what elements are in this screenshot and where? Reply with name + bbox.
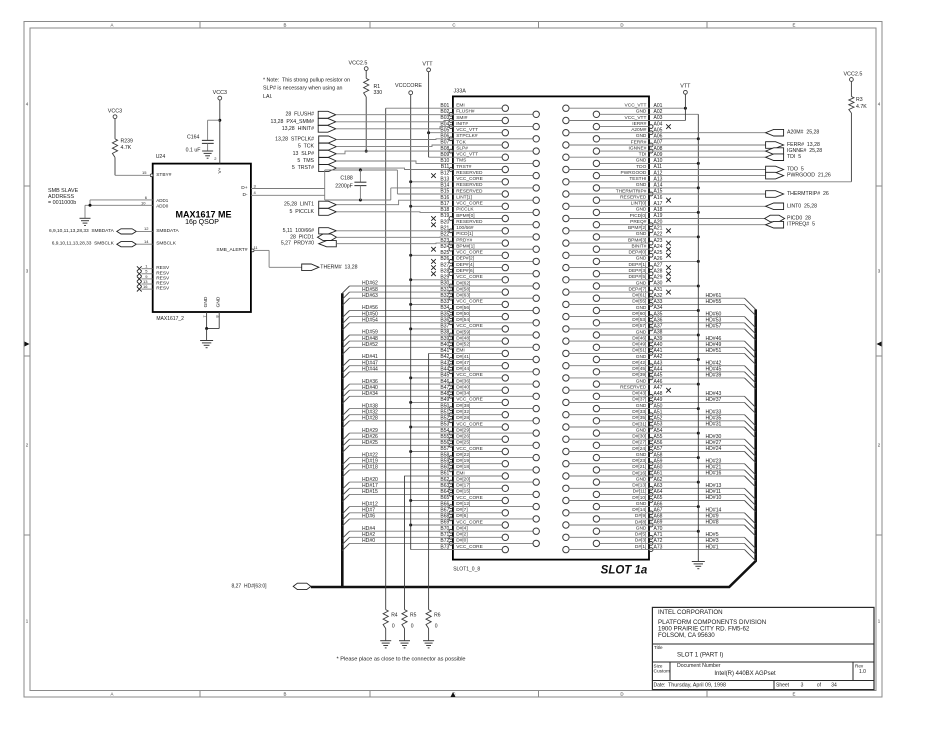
svg-text:VCC_CORE: VCC_CORE bbox=[456, 446, 483, 452]
svg-text:A21: A21 bbox=[654, 226, 663, 232]
svg-text:D#[20]: D#[20] bbox=[456, 476, 470, 482]
svg-text:D#[53]: D#[53] bbox=[632, 317, 646, 323]
svg-text:25,28 LINT1: 25,28 LINT1 bbox=[284, 202, 314, 208]
svg-text:VCC_CORE: VCC_CORE bbox=[456, 176, 483, 182]
svg-text:100/66#: 100/66# bbox=[456, 225, 474, 231]
svg-text:D#[19]: D#[19] bbox=[456, 458, 470, 464]
svg-text:LINT0 25,28: LINT0 25,28 bbox=[787, 203, 817, 209]
svg-text:6,9,10,11,13,28,33 SMBDATA: 6,9,10,11,13,28,33 SMBDATA bbox=[49, 228, 115, 234]
svg-text:IGNNE#: IGNNE# bbox=[629, 145, 647, 151]
svg-text:R4: R4 bbox=[391, 613, 398, 619]
svg-text:D#[46]: D#[46] bbox=[632, 335, 646, 341]
svg-text:Sheet: Sheet bbox=[776, 682, 790, 688]
svg-text:D#[27]: D#[27] bbox=[632, 440, 646, 446]
svg-text:SLOT 1 (PART I): SLOT 1 (PART I) bbox=[677, 652, 723, 659]
svg-text:HD#3: HD#3 bbox=[706, 538, 719, 544]
svg-text:TDI: TDI bbox=[639, 152, 647, 158]
svg-text:TESTHI: TESTHI bbox=[629, 176, 646, 182]
svg-text:HD#4: HD#4 bbox=[362, 526, 375, 532]
svg-text:SLOT 1a: SLOT 1a bbox=[601, 565, 648, 577]
svg-text:13,28 HINIT#: 13,28 HINIT# bbox=[282, 126, 314, 132]
svg-text:HD#11: HD#11 bbox=[706, 489, 722, 495]
svg-text:D#[9]: D#[9] bbox=[635, 513, 646, 519]
svg-text:Size: Size bbox=[654, 663, 663, 668]
svg-text:TDI 5: TDI 5 bbox=[787, 154, 801, 160]
svg-text:12: 12 bbox=[144, 226, 149, 231]
svg-text:SMB_ALERT#: SMB_ALERT# bbox=[216, 247, 247, 253]
svg-text:1.0: 1.0 bbox=[859, 669, 866, 675]
svg-text:D#[6]: D#[6] bbox=[456, 513, 467, 519]
svg-text:GND: GND bbox=[636, 501, 647, 507]
svg-text:B28: B28 bbox=[440, 268, 449, 274]
svg-text:* Please place as close to the: * Please place as close to the connector… bbox=[337, 656, 466, 662]
svg-text:3: 3 bbox=[801, 682, 804, 688]
svg-text:D#[55]: D#[55] bbox=[632, 299, 646, 305]
svg-text:PICD[0]: PICD[0] bbox=[630, 213, 647, 219]
svg-text:HD#41: HD#41 bbox=[362, 354, 378, 360]
svg-text:FLUSH#: FLUSH# bbox=[456, 109, 475, 115]
svg-text:D#[33]: D#[33] bbox=[632, 409, 646, 415]
svg-text:LINT[0]: LINT[0] bbox=[631, 201, 647, 207]
svg-text:D#[38]: D#[38] bbox=[456, 403, 470, 409]
svg-text:IERR#: IERR# bbox=[632, 121, 646, 127]
svg-text:D#[23]: D#[23] bbox=[632, 458, 646, 464]
svg-text:VTT: VTT bbox=[680, 84, 691, 90]
svg-text:B20: B20 bbox=[440, 219, 449, 225]
svg-text:DEP#[2]: DEP#[2] bbox=[456, 256, 474, 262]
svg-text:HD#45: HD#45 bbox=[706, 367, 722, 373]
svg-text:HD#55: HD#55 bbox=[706, 299, 722, 305]
svg-text:0: 0 bbox=[435, 623, 438, 629]
svg-text:BINIT#: BINIT# bbox=[631, 244, 646, 250]
svg-text:RESV: RESV bbox=[156, 270, 170, 276]
svg-text:D: D bbox=[620, 691, 623, 696]
svg-text:15: 15 bbox=[142, 170, 147, 175]
svg-text:HD#25: HD#25 bbox=[362, 440, 378, 446]
svg-text:HD#1: HD#1 bbox=[706, 544, 719, 550]
svg-text:HD#14: HD#14 bbox=[706, 508, 722, 514]
svg-text:D#[57]: D#[57] bbox=[632, 323, 646, 329]
svg-text:C: C bbox=[452, 23, 455, 28]
svg-text:D: D bbox=[620, 23, 623, 28]
svg-text:D#[3]: D#[3] bbox=[635, 538, 646, 544]
svg-text:STBY#: STBY# bbox=[156, 172, 172, 178]
svg-text:D#[41]: D#[41] bbox=[456, 354, 470, 360]
svg-text:A04: A04 bbox=[654, 121, 663, 127]
svg-text:VTT: VTT bbox=[422, 62, 433, 68]
svg-text:HD#21: HD#21 bbox=[706, 465, 722, 471]
svg-text:13,28 PX4_SMM#: 13,28 PX4_SMM# bbox=[270, 119, 314, 125]
svg-text:D#[48]: D#[48] bbox=[456, 335, 470, 341]
svg-text:BPM#[1]: BPM#[1] bbox=[456, 244, 474, 250]
svg-text:D#[0]: D#[0] bbox=[456, 538, 467, 544]
svg-text:A28: A28 bbox=[654, 268, 663, 274]
svg-text:D#[26]: D#[26] bbox=[456, 434, 470, 440]
svg-text:HD#40: HD#40 bbox=[362, 385, 378, 391]
svg-text:HD#48: HD#48 bbox=[362, 336, 378, 342]
svg-text:HD#27: HD#27 bbox=[706, 440, 722, 446]
svg-text:EMI: EMI bbox=[456, 348, 465, 354]
svg-text:A: A bbox=[111, 23, 114, 28]
svg-text:GND: GND bbox=[636, 256, 647, 262]
svg-text:HD#22: HD#22 bbox=[362, 452, 378, 458]
svg-text:D#[62]: D#[62] bbox=[456, 280, 470, 286]
svg-text:HD#53: HD#53 bbox=[706, 317, 722, 323]
svg-text:R6: R6 bbox=[434, 613, 441, 619]
svg-text:SMBCLK: SMBCLK bbox=[156, 241, 177, 247]
svg-text:Rev: Rev bbox=[855, 663, 864, 668]
svg-text:B12: B12 bbox=[440, 170, 449, 176]
svg-text:GND: GND bbox=[636, 452, 647, 458]
svg-text:D#[35]: D#[35] bbox=[632, 415, 646, 421]
svg-text:INIT#: INIT# bbox=[456, 121, 468, 127]
svg-text:D#[25]: D#[25] bbox=[456, 440, 470, 446]
svg-text:GND: GND bbox=[216, 296, 222, 307]
svg-text:D#[44]: D#[44] bbox=[456, 366, 470, 372]
svg-text:HD#60: HD#60 bbox=[706, 311, 722, 317]
svg-text:D#[42]: D#[42] bbox=[632, 360, 646, 366]
svg-text:D#[52]: D#[52] bbox=[456, 342, 470, 348]
svg-text:D#[47]: D#[47] bbox=[456, 360, 470, 366]
svg-text:VCC3: VCC3 bbox=[213, 90, 227, 96]
svg-text:PICD0 28: PICD0 28 bbox=[787, 216, 811, 222]
svg-text:D#[13]: D#[13] bbox=[632, 483, 646, 489]
svg-text:MAX1617_2: MAX1617_2 bbox=[156, 316, 184, 322]
svg-text:8,27 HD#[63:0]: 8,27 HD#[63:0] bbox=[231, 583, 267, 589]
svg-text:ITPREQ# 5: ITPREQ# 5 bbox=[787, 222, 815, 228]
svg-text:VCC_CORE: VCC_CORE bbox=[456, 544, 483, 550]
svg-text:GND: GND bbox=[636, 109, 647, 115]
svg-text:RESERVED: RESERVED bbox=[456, 188, 483, 194]
svg-text:0.1 uF: 0.1 uF bbox=[186, 148, 201, 154]
svg-text:SLP# is necessary when using a: SLP# is necessary when using an bbox=[263, 86, 343, 92]
svg-text:R1: R1 bbox=[374, 84, 381, 90]
svg-text:VCC_VTT: VCC_VTT bbox=[625, 115, 647, 121]
svg-text:14: 14 bbox=[144, 239, 149, 244]
svg-text:5 PICCLK: 5 PICCLK bbox=[289, 209, 314, 215]
svg-text:13,28 STPCLK#: 13,28 STPCLK# bbox=[275, 137, 314, 143]
svg-text:HD#28: HD#28 bbox=[362, 416, 378, 422]
svg-text:D#[28]: D#[28] bbox=[456, 415, 470, 421]
svg-text:RESERVED: RESERVED bbox=[456, 219, 483, 225]
svg-text:HD#18: HD#18 bbox=[362, 465, 378, 471]
svg-text:Custom: Custom bbox=[654, 668, 671, 674]
svg-text:D#[1]: D#[1] bbox=[635, 544, 646, 550]
svg-text:D#[37]: D#[37] bbox=[632, 397, 646, 403]
svg-text:THERM# 13,28: THERM# 13,28 bbox=[320, 264, 357, 270]
svg-text:Thursday, April 09, 1998: Thursday, April 09, 1998 bbox=[668, 682, 726, 688]
svg-text:VCC_CORE: VCC_CORE bbox=[456, 274, 483, 280]
svg-text:D#[4]: D#[4] bbox=[456, 526, 467, 532]
svg-text:HD#23: HD#23 bbox=[706, 458, 722, 464]
svg-text:GND: GND bbox=[636, 354, 647, 360]
svg-text:SLOT1_0_8: SLOT1_0_8 bbox=[453, 567, 480, 573]
svg-text:TRST#: TRST# bbox=[456, 164, 472, 170]
svg-text:6,9,10,11,13,28,33 SMBCLK: 6,9,10,11,13,28,33 SMBCLK bbox=[52, 241, 115, 247]
svg-text:D#[24]: D#[24] bbox=[632, 446, 646, 452]
svg-text:HD#17: HD#17 bbox=[362, 483, 378, 489]
svg-text:A24: A24 bbox=[654, 244, 663, 250]
svg-text:B26: B26 bbox=[440, 256, 449, 262]
svg-text:VCC_CORE: VCC_CORE bbox=[456, 201, 483, 207]
svg-text:D#[7]: D#[7] bbox=[456, 507, 467, 513]
svg-text:= 0011000b: = 0011000b bbox=[48, 200, 76, 206]
svg-text:PRDY#: PRDY# bbox=[456, 237, 472, 243]
svg-text:28 PICD1: 28 PICD1 bbox=[290, 234, 314, 240]
svg-text:HD#46: HD#46 bbox=[706, 336, 722, 342]
svg-text:D#[39]: D#[39] bbox=[632, 372, 646, 378]
svg-text:HD#30: HD#30 bbox=[706, 434, 722, 440]
svg-text:RESV: RESV bbox=[156, 286, 170, 292]
svg-text:D#[21]: D#[21] bbox=[632, 464, 646, 470]
svg-text:GND: GND bbox=[636, 427, 647, 433]
svg-text:D#[2]: D#[2] bbox=[456, 532, 467, 538]
svg-text:RESV: RESV bbox=[156, 281, 170, 287]
svg-text:GND: GND bbox=[636, 476, 647, 482]
svg-text:D#[49]: D#[49] bbox=[632, 342, 646, 348]
svg-text:ADD0: ADD0 bbox=[156, 203, 169, 208]
svg-text:HD#62: HD#62 bbox=[362, 281, 378, 287]
svg-text:RESV: RESV bbox=[156, 265, 170, 271]
svg-text:THERMTRIP#: THERMTRIP# bbox=[616, 188, 647, 194]
svg-text:A20M#: A20M# bbox=[631, 127, 647, 133]
svg-text:0: 0 bbox=[392, 623, 395, 629]
svg-text:TDO: TDO bbox=[636, 164, 646, 170]
svg-text:HD#58: HD#58 bbox=[362, 287, 378, 293]
svg-text:HD#8: HD#8 bbox=[706, 520, 719, 526]
svg-text:HD#19: HD#19 bbox=[362, 458, 378, 464]
svg-text:HD#13: HD#13 bbox=[706, 483, 722, 489]
svg-text:D#[58]: D#[58] bbox=[456, 286, 470, 292]
svg-text:HD#36: HD#36 bbox=[362, 379, 378, 385]
svg-text:HD#26: HD#26 bbox=[362, 434, 378, 440]
svg-text:13 SLP#: 13 SLP# bbox=[293, 151, 314, 157]
svg-text:D#[50]: D#[50] bbox=[456, 311, 470, 317]
svg-text:D#[31]: D#[31] bbox=[632, 421, 646, 427]
svg-text:VCC_VTT: VCC_VTT bbox=[456, 127, 478, 133]
svg-text:28 FLUSH#: 28 FLUSH# bbox=[285, 112, 314, 118]
svg-text:B: B bbox=[284, 23, 287, 28]
svg-text:U24: U24 bbox=[156, 154, 166, 160]
svg-text:HD#51: HD#51 bbox=[706, 348, 722, 354]
svg-text:STPCLK#: STPCLK# bbox=[456, 133, 478, 139]
svg-text:HD#0: HD#0 bbox=[362, 538, 375, 544]
svg-text:D#[36]: D#[36] bbox=[456, 378, 470, 384]
svg-text:5 TMS: 5 TMS bbox=[297, 158, 314, 164]
svg-text:330: 330 bbox=[374, 90, 383, 96]
svg-text:HD#29: HD#29 bbox=[362, 428, 378, 434]
svg-text:D#[30]: D#[30] bbox=[632, 434, 646, 440]
svg-text:D#[11]: D#[11] bbox=[633, 489, 647, 495]
svg-text:D#[5]: D#[5] bbox=[635, 532, 646, 538]
svg-text:HD#32: HD#32 bbox=[362, 409, 378, 415]
svg-text:16: 16 bbox=[143, 284, 148, 289]
svg-text:VCC3: VCC3 bbox=[108, 109, 122, 115]
svg-text:5,27 PRDY#0: 5,27 PRDY#0 bbox=[281, 241, 314, 247]
svg-text:R239: R239 bbox=[121, 139, 134, 145]
svg-text:A47: A47 bbox=[654, 385, 663, 391]
svg-text:LINT[1]: LINT[1] bbox=[456, 195, 472, 201]
svg-text:MAX1617 ME: MAX1617 ME bbox=[175, 210, 231, 220]
svg-text:VCC_VTT: VCC_VTT bbox=[625, 103, 647, 109]
svg-text:ADD1: ADD1 bbox=[156, 198, 169, 203]
svg-text:RESERVED: RESERVED bbox=[620, 385, 647, 391]
svg-text:VCCCORE: VCCCORE bbox=[395, 83, 422, 89]
svg-text:D#[34]: D#[34] bbox=[456, 391, 470, 397]
svg-text:GND: GND bbox=[636, 329, 647, 335]
svg-text:GND: GND bbox=[636, 378, 647, 384]
svg-text:HD#39: HD#39 bbox=[706, 373, 722, 379]
svg-text:VCC_CORE: VCC_CORE bbox=[456, 299, 483, 305]
svg-text:HD#7: HD#7 bbox=[362, 508, 375, 514]
svg-text:A: A bbox=[111, 691, 114, 696]
svg-text:Intel(R) 440BX AGPset: Intel(R) 440BX AGPset bbox=[714, 671, 776, 677]
svg-text:0: 0 bbox=[411, 623, 414, 629]
svg-text:HD#63: HD#63 bbox=[362, 293, 378, 299]
svg-text:4.7K: 4.7K bbox=[856, 104, 867, 110]
svg-text:D#[63]: D#[63] bbox=[456, 293, 470, 299]
svg-text:PWRGOOD: PWRGOOD bbox=[621, 170, 647, 176]
svg-text:RESERVED: RESERVED bbox=[456, 170, 483, 176]
svg-text:HD#16: HD#16 bbox=[706, 471, 722, 477]
svg-text:D#[51]: D#[51] bbox=[632, 348, 646, 354]
svg-text:D#[40]: D#[40] bbox=[456, 385, 470, 391]
svg-text:TMS: TMS bbox=[456, 158, 466, 164]
svg-text:FERR# 13,28: FERR# 13,28 bbox=[787, 142, 820, 148]
svg-text:5 TCK: 5 TCK bbox=[298, 144, 315, 150]
svg-text:SMI#: SMI# bbox=[456, 115, 468, 121]
svg-text:FERR#: FERR# bbox=[631, 139, 647, 145]
svg-text:GND: GND bbox=[636, 280, 647, 286]
svg-text:D#[59]: D#[59] bbox=[456, 329, 470, 335]
svg-text:GND: GND bbox=[636, 403, 647, 409]
svg-text:GND: GND bbox=[636, 207, 647, 213]
svg-text:DEP#[0]: DEP#[0] bbox=[629, 250, 647, 256]
svg-text:C188: C188 bbox=[340, 176, 353, 182]
svg-text:HD#15: HD#15 bbox=[362, 489, 378, 495]
svg-text:D#[17]: D#[17] bbox=[456, 483, 470, 489]
svg-text:SMBDATA: SMBDATA bbox=[156, 228, 179, 234]
svg-text:DEP#[7]: DEP#[7] bbox=[629, 286, 647, 292]
svg-text:EMI: EMI bbox=[456, 103, 465, 109]
svg-text:E: E bbox=[793, 23, 796, 28]
svg-text:A31: A31 bbox=[654, 287, 663, 293]
svg-text:16p QSOP: 16p QSOP bbox=[185, 219, 219, 226]
svg-text:VCC_CORE: VCC_CORE bbox=[456, 495, 483, 501]
svg-text:HD#35: HD#35 bbox=[706, 416, 722, 422]
svg-text:HD#6: HD#6 bbox=[362, 514, 375, 520]
svg-text:HD#10: HD#10 bbox=[706, 495, 722, 501]
svg-text:VCC_VTT: VCC_VTT bbox=[456, 152, 478, 158]
svg-text:D#[8]: D#[8] bbox=[635, 519, 646, 525]
svg-text:D#[15]: D#[15] bbox=[456, 489, 470, 495]
svg-text:D#[29]: D#[29] bbox=[456, 427, 470, 433]
svg-text:HD#52: HD#52 bbox=[362, 342, 378, 348]
svg-text:HD#12: HD#12 bbox=[362, 501, 378, 507]
svg-text:D#[16]: D#[16] bbox=[632, 470, 646, 476]
svg-text:D#[10]: D#[10] bbox=[632, 495, 646, 501]
svg-text:HD#42: HD#42 bbox=[706, 360, 722, 366]
svg-text:HD#38: HD#38 bbox=[362, 403, 378, 409]
svg-text:B27: B27 bbox=[440, 262, 449, 268]
svg-text:HD#49: HD#49 bbox=[706, 342, 722, 348]
svg-text:A20M# 25,28: A20M# 25,28 bbox=[787, 130, 819, 136]
svg-text:PICD[1]: PICD[1] bbox=[456, 231, 473, 237]
svg-text:D#[54]: D#[54] bbox=[456, 317, 470, 323]
svg-text:5 TRST#: 5 TRST# bbox=[292, 165, 314, 171]
svg-text:PICCLK: PICCLK bbox=[456, 207, 474, 213]
svg-text:HD#9: HD#9 bbox=[706, 514, 719, 520]
svg-text:D#[18]: D#[18] bbox=[456, 464, 470, 470]
svg-text:GND: GND bbox=[636, 182, 647, 188]
svg-text:VCC_CORE: VCC_CORE bbox=[456, 397, 483, 403]
svg-text:BPM#[2]: BPM#[2] bbox=[628, 225, 646, 231]
svg-text:D#[60]: D#[60] bbox=[632, 311, 646, 317]
svg-text:INTEL CORPORATION: INTEL CORPORATION bbox=[658, 609, 723, 616]
svg-text:A23: A23 bbox=[654, 238, 663, 244]
svg-text:D+: D+ bbox=[241, 185, 247, 191]
svg-text:D#[45]: D#[45] bbox=[632, 366, 646, 372]
svg-text:B: B bbox=[284, 691, 287, 696]
svg-text:Document Number: Document Number bbox=[677, 663, 721, 669]
svg-text:of: of bbox=[817, 682, 822, 688]
svg-text:HD#24: HD#24 bbox=[706, 446, 722, 452]
svg-text:VCC_CORE: VCC_CORE bbox=[456, 421, 483, 427]
svg-text:HD#59: HD#59 bbox=[362, 330, 378, 336]
svg-text:B24: B24 bbox=[440, 244, 449, 250]
svg-text:HD#2: HD#2 bbox=[362, 532, 375, 538]
svg-text:D#[61]: D#[61] bbox=[632, 293, 646, 299]
svg-text:RESV: RESV bbox=[156, 275, 170, 281]
svg-text:C164: C164 bbox=[187, 134, 200, 140]
svg-text:DEP#[4]: DEP#[4] bbox=[456, 262, 474, 268]
svg-text:2200pF: 2200pF bbox=[335, 183, 353, 189]
svg-text:V+: V+ bbox=[217, 167, 223, 173]
svg-text:R3: R3 bbox=[856, 97, 863, 103]
svg-text:A27: A27 bbox=[654, 262, 663, 268]
svg-text:HD#54: HD#54 bbox=[362, 317, 378, 323]
svg-text:BPM#[0]: BPM#[0] bbox=[456, 213, 474, 219]
svg-text:B19: B19 bbox=[440, 213, 449, 219]
svg-text:A29: A29 bbox=[654, 275, 663, 281]
svg-text:GND: GND bbox=[203, 296, 209, 307]
svg-text:34: 34 bbox=[831, 682, 837, 688]
svg-text:A25: A25 bbox=[654, 250, 663, 256]
svg-text:BPM#[3]: BPM#[3] bbox=[628, 237, 646, 243]
svg-text:HD#44: HD#44 bbox=[362, 367, 378, 373]
svg-text:RESERVED: RESERVED bbox=[620, 195, 647, 201]
svg-text:VCC_CORE: VCC_CORE bbox=[456, 323, 483, 329]
svg-text:J33A: J33A bbox=[454, 89, 467, 95]
svg-text:D#[43]: D#[43] bbox=[632, 391, 646, 397]
svg-text:TDO 5: TDO 5 bbox=[787, 167, 804, 173]
svg-text:D#[12]: D#[12] bbox=[456, 501, 470, 507]
svg-text:HD#31: HD#31 bbox=[706, 422, 722, 428]
svg-text:Date:: Date: bbox=[654, 682, 666, 688]
svg-text:VCC_CORE: VCC_CORE bbox=[456, 519, 483, 525]
svg-text:GND: GND bbox=[636, 305, 647, 311]
svg-text:VCC_CORE: VCC_CORE bbox=[456, 372, 483, 378]
svg-text:D#[32]: D#[32] bbox=[456, 409, 470, 415]
svg-text:A16: A16 bbox=[654, 195, 663, 201]
svg-text:VCC_CORE: VCC_CORE bbox=[456, 250, 483, 256]
svg-text:HD#20: HD#20 bbox=[362, 477, 378, 483]
svg-text:VCC2.5: VCC2.5 bbox=[843, 71, 862, 77]
svg-text:LAI.: LAI. bbox=[263, 94, 272, 100]
svg-text:TCK: TCK bbox=[456, 139, 466, 145]
svg-text:DEP#[3]: DEP#[3] bbox=[629, 268, 647, 274]
svg-text:R5: R5 bbox=[410, 613, 417, 619]
